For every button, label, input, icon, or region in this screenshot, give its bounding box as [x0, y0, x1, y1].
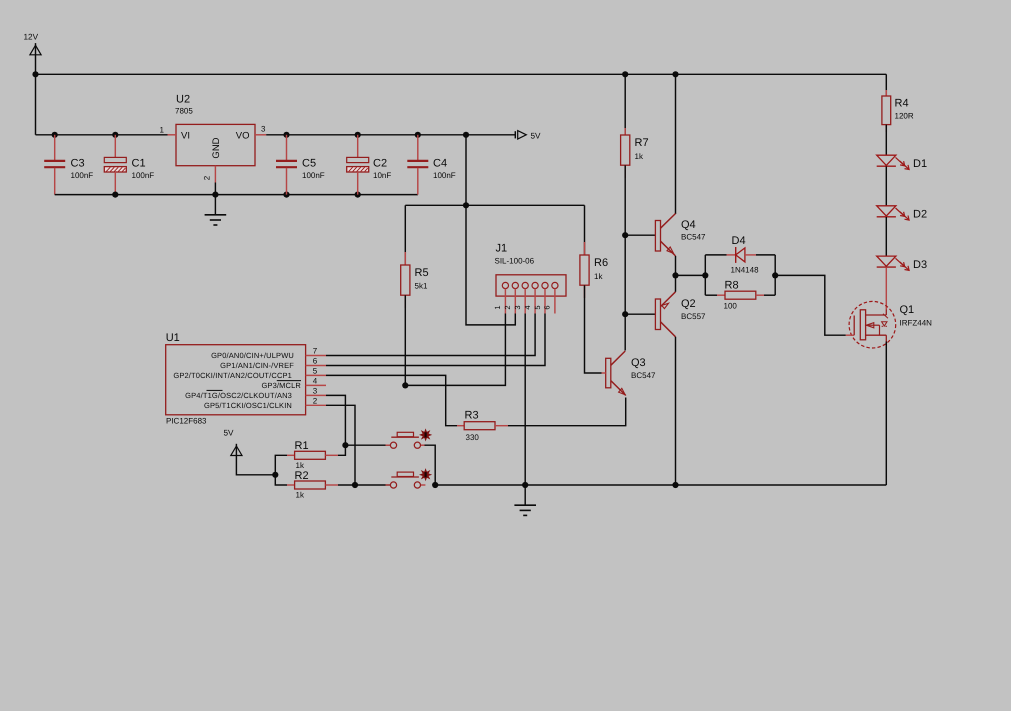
- junction loop right: [772, 272, 778, 278]
- connector J1 SIL-100-06: [496, 275, 566, 296]
- junction loop left: [702, 272, 708, 278]
- wire button1 right: [425, 445, 436, 485]
- junction C3 top: [52, 132, 58, 138]
- svg-text:2: 2: [203, 175, 212, 180]
- svg-text:3: 3: [513, 305, 522, 309]
- svg-text:1k: 1k: [594, 272, 603, 281]
- junction pullup: [272, 472, 278, 478]
- svg-text:100nF: 100nF: [433, 171, 456, 180]
- wire R5 top: [404, 205, 406, 265]
- junction drive node: [672, 272, 678, 278]
- ground main: [524, 485, 526, 505]
- wire GP2 to R3: [326, 375, 457, 425]
- svg-text:GND: GND: [211, 137, 222, 158]
- capacitor C2: [357, 135, 359, 158]
- svg-text:1k: 1k: [635, 152, 644, 161]
- svg-text:U1: U1: [166, 332, 180, 344]
- svg-text:6: 6: [543, 305, 552, 309]
- junction C5 bottom: [283, 192, 289, 198]
- svg-text:100nF: 100nF: [302, 171, 325, 180]
- transistor Q3 BC547: [606, 358, 611, 388]
- svg-text:100nF: 100nF: [71, 171, 94, 180]
- wire R8 left: [705, 294, 717, 296]
- junction C1 bottom: [112, 192, 118, 198]
- wire Q2 emitter: [675, 275, 677, 291]
- wire D2 to D3: [885, 217, 887, 256]
- diode D4 1N4148: [727, 254, 736, 256]
- wire J1 pin3 to gnd: [524, 314, 526, 486]
- wire D1 to D2: [885, 166, 887, 205]
- junction C2 bottom: [355, 192, 361, 198]
- junction Q2 collector gnd: [672, 482, 678, 488]
- mosfet Q1 IRFZ44N: [849, 301, 896, 348]
- wire Q4 collector: [675, 74, 677, 214]
- wire R8 right: [764, 294, 775, 296]
- wire R2 to button2: [338, 484, 390, 486]
- junction Q4 collector rail: [672, 71, 678, 77]
- junction C4 top: [415, 132, 421, 138]
- svg-text:VO: VO: [236, 130, 250, 141]
- node 12V junction: [32, 71, 38, 77]
- svg-text:C4: C4: [433, 158, 447, 170]
- wire J1 pin1 to GP3 net: [405, 314, 505, 386]
- wire GP5 down: [326, 405, 355, 485]
- capacitor C4: [417, 135, 419, 161]
- wire Q2 base: [625, 313, 655, 315]
- svg-text:R3: R3: [465, 410, 479, 422]
- wire 5V pullup: [236, 456, 275, 475]
- svg-text:3: 3: [261, 125, 266, 134]
- wire R6 bottom: [585, 285, 602, 373]
- junction 5V mid: [463, 202, 469, 208]
- ic U1 PIC12F683: [166, 345, 306, 415]
- svg-text:C5: C5: [302, 158, 316, 170]
- power 5V flag: [518, 131, 527, 139]
- svg-text:GP0/AN0/CIN+/ULPWU: GP0/AN0/CIN+/ULPWU: [211, 351, 294, 360]
- wire pullup to R1: [275, 455, 287, 475]
- svg-text:BC547: BC547: [631, 371, 656, 380]
- svg-text:C1: C1: [132, 158, 146, 170]
- svg-text:R6: R6: [594, 257, 608, 269]
- svg-text:GP1/AN1/CIN-/VREF: GP1/AN1/CIN-/VREF: [220, 361, 294, 370]
- svg-text:1k: 1k: [296, 461, 305, 470]
- capacitor C5: [286, 135, 288, 161]
- svg-text:R7: R7: [635, 137, 649, 149]
- resistor R5: [404, 252, 406, 265]
- svg-text:R1: R1: [295, 440, 309, 452]
- svg-text:1: 1: [160, 126, 165, 135]
- wire R7 bottom: [624, 165, 626, 350]
- svg-text:100: 100: [724, 302, 738, 311]
- svg-text:7: 7: [313, 347, 318, 356]
- svg-text:R8: R8: [725, 279, 739, 291]
- svg-text:10nF: 10nF: [373, 171, 391, 180]
- svg-text:GP5/T1CKI/OSC1/CLKIN: GP5/T1CKI/OSC1/CLKIN: [204, 401, 292, 410]
- wire D4 right: [756, 254, 775, 256]
- svg-text:BC557: BC557: [681, 312, 706, 321]
- ground under U2: [214, 195, 216, 215]
- junction C1 top: [112, 132, 118, 138]
- svg-text:IRFZ44N: IRFZ44N: [900, 319, 933, 328]
- wire J1 pin5 to GP1: [326, 314, 545, 366]
- junction GP5 node: [352, 482, 358, 488]
- wire R7 top: [624, 74, 626, 135]
- junction C5 top: [283, 132, 289, 138]
- wire R4 to D1: [885, 125, 887, 156]
- svg-text:GP4/T1G/OSC2/CLKOUT/AN3: GP4/T1G/OSC2/CLKOUT/AN3: [185, 391, 292, 400]
- wire Q4 base: [625, 234, 655, 236]
- wire drive to loop: [676, 274, 706, 276]
- svg-text:5k1: 5k1: [415, 282, 428, 291]
- capacitor C1: [114, 135, 116, 158]
- svg-text:100nF: 100nF: [132, 171, 155, 180]
- svg-text:5V: 5V: [224, 429, 235, 438]
- transistor Q4 BC547: [655, 221, 660, 252]
- wire 5V rail: [266, 134, 515, 136]
- wire loop right: [774, 255, 776, 295]
- led D1: [877, 155, 896, 165]
- resistor R1: [287, 454, 295, 456]
- svg-text:Q3: Q3: [631, 357, 646, 369]
- junction buttons gnd: [432, 482, 438, 488]
- resistor R2: [287, 484, 295, 486]
- led D3: [877, 256, 896, 266]
- svg-text:C3: C3: [71, 158, 85, 170]
- wire R1 to GP4 node: [338, 445, 345, 455]
- transistor Q2 BC557: [655, 299, 660, 330]
- wire R3 to Q3 emitter: [508, 398, 626, 426]
- svg-text:6: 6: [313, 357, 318, 366]
- wire Q1 source to gnd: [885, 342, 887, 486]
- wire R6 top: [584, 205, 586, 255]
- svg-text:D3: D3: [913, 259, 927, 271]
- pushbutton SW1: [386, 444, 391, 446]
- svg-text:2: 2: [503, 305, 512, 309]
- regulator U2 7805: [176, 124, 255, 165]
- junction GP4 node: [342, 442, 348, 448]
- wire Q4 emitter: [675, 256, 677, 276]
- wire button1 left: [345, 444, 390, 446]
- svg-text:4: 4: [313, 377, 318, 386]
- svg-text:Q4: Q4: [681, 219, 696, 231]
- wire ground rail: [435, 484, 886, 486]
- svg-text:5V: 5V: [531, 132, 542, 141]
- wire pullup to R2: [275, 475, 287, 485]
- wire D3 to Q1 drain: [885, 267, 887, 309]
- junction C2 top: [355, 132, 361, 138]
- svg-text:1: 1: [493, 305, 502, 309]
- svg-text:D2: D2: [913, 209, 927, 221]
- svg-text:R2: R2: [295, 470, 309, 482]
- junction Q4 base: [622, 232, 628, 238]
- wire D4 left: [705, 254, 726, 256]
- wire loop left: [704, 255, 706, 295]
- svg-text:U2: U2: [176, 94, 190, 106]
- wire Q2 collector: [675, 337, 677, 485]
- svg-text:1N4148: 1N4148: [731, 265, 760, 274]
- resistor R7: [624, 128, 626, 135]
- svg-text:330: 330: [466, 433, 480, 442]
- svg-text:5: 5: [533, 305, 542, 309]
- svg-text:120R: 120R: [895, 112, 914, 121]
- svg-text:J1: J1: [496, 243, 508, 255]
- svg-text:4: 4: [523, 305, 532, 309]
- svg-text:7805: 7805: [175, 107, 193, 116]
- wire 12V top rail: [36, 73, 887, 75]
- svg-text:PIC12F683: PIC12F683: [166, 416, 207, 425]
- wire J1 pin4 to GP0: [326, 314, 535, 356]
- wire rail to R4: [885, 74, 887, 96]
- svg-text:VI: VI: [181, 130, 190, 141]
- wire VI rail: [36, 134, 168, 136]
- svg-text:3: 3: [313, 387, 318, 396]
- wire GP4 down: [326, 395, 345, 445]
- junction gnd sym: [522, 482, 528, 488]
- wire 5V to J1 pin2: [466, 205, 515, 325]
- svg-text:SIL-100-06: SIL-100-06: [495, 257, 535, 266]
- svg-text:BC547: BC547: [681, 233, 706, 242]
- wire R5 bottom: [404, 295, 406, 385]
- resistor R3: [457, 425, 464, 427]
- wire 12V to VI rail: [35, 74, 37, 135]
- resistor R4: [885, 90, 887, 96]
- svg-text:GP2/T0CKI/INT/AN2/COUT/CCP1: GP2/T0CKI/INT/AN2/COUT/CCP1: [173, 371, 292, 380]
- junction 5V tap: [463, 132, 469, 138]
- svg-text:Q1: Q1: [900, 304, 915, 316]
- svg-text:GP3/MCLR: GP3/MCLR: [261, 381, 301, 390]
- junction R5 GP3: [402, 382, 408, 388]
- resistor R8: [717, 294, 725, 296]
- junction R7 top: [622, 71, 628, 77]
- junction Q2 base: [622, 311, 628, 317]
- resistor R6: [584, 242, 586, 255]
- svg-text:5: 5: [313, 367, 318, 376]
- svg-text:2: 2: [313, 397, 318, 406]
- wire 5V down: [465, 135, 467, 206]
- svg-text:Q2: Q2: [681, 298, 696, 310]
- svg-text:C2: C2: [373, 158, 387, 170]
- pushbutton SW2: [386, 484, 391, 486]
- wire mid rail: [405, 204, 584, 206]
- svg-text:D4: D4: [732, 235, 746, 247]
- wire input ground rail: [55, 194, 418, 196]
- svg-text:R4: R4: [895, 98, 909, 110]
- svg-text:D1: D1: [913, 158, 927, 170]
- wire loop to gate: [775, 275, 846, 335]
- svg-text:1k: 1k: [296, 491, 305, 500]
- junction U2 gnd pin: [212, 192, 218, 198]
- svg-text:12V: 12V: [24, 33, 39, 42]
- svg-text:R5: R5: [415, 267, 429, 279]
- led D2: [877, 206, 896, 216]
- capacitor C3: [54, 135, 56, 161]
